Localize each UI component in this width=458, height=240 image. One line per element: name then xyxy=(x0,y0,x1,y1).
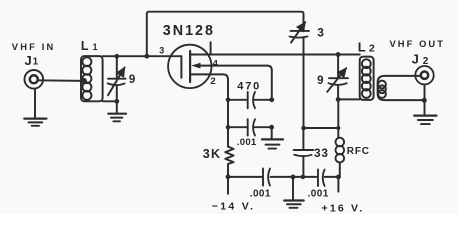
wire pin4 substrate with arrow xyxy=(191,63,272,100)
inductor L3 coupling secondary xyxy=(378,76,425,100)
connector J2 xyxy=(415,66,433,84)
wire pin2 source xyxy=(190,74,228,146)
junction dot C1 bottom xyxy=(114,99,119,104)
svg-text:2: 2 xyxy=(369,43,375,55)
svg-text:L: L xyxy=(81,39,89,53)
svg-text:9: 9 xyxy=(129,74,135,86)
wire tank bottom to RFC node xyxy=(337,99,339,128)
label J1 xyxy=(25,53,39,68)
svg-text:.001: .001 xyxy=(250,188,271,199)
wire link to RFC node xyxy=(304,127,339,129)
svg-text:4: 4 xyxy=(213,58,219,69)
junction dot neutralization tap xyxy=(144,54,149,59)
label L2 xyxy=(358,40,375,55)
resistor 3K xyxy=(225,147,233,177)
capacitor C3 neutralizing 3pF xyxy=(290,22,310,128)
svg-text:VHF OUT: VHF OUT xyxy=(390,39,446,49)
capacitor 470pF xyxy=(228,92,272,108)
junction dot +16V node xyxy=(336,175,341,180)
svg-text:9: 9 xyxy=(317,75,323,87)
junction dot C3 to tank link xyxy=(301,126,306,131)
wire L1 bottom to C1 xyxy=(103,100,117,102)
capacitor .001 bus left xyxy=(263,169,270,186)
wire -14V stem xyxy=(227,177,229,194)
svg-text:J: J xyxy=(25,53,32,68)
transistor Q1 3N128 xyxy=(168,45,211,88)
label J2 xyxy=(412,52,429,67)
wire +16V stem xyxy=(337,177,339,192)
junction dot RFC top node xyxy=(336,126,340,130)
svg-text:3: 3 xyxy=(317,26,324,40)
wire tank bottom xyxy=(338,98,360,100)
ground under C1 xyxy=(108,101,126,121)
ground under J2 xyxy=(414,116,436,125)
svg-text:.001: .001 xyxy=(308,188,329,199)
ground bottom center xyxy=(284,177,304,208)
svg-text:1: 1 xyxy=(33,57,39,68)
junction tap dot on L1 xyxy=(81,78,87,84)
junction dot -14V node xyxy=(226,174,231,179)
svg-text:1: 1 xyxy=(93,42,98,52)
svg-text:L: L xyxy=(358,40,366,55)
junction dot 33 bottom xyxy=(301,175,306,180)
ground under J1 xyxy=(24,89,46,126)
capacitor C9 output variable 9pF xyxy=(327,55,348,100)
capacitor .001 bypass a xyxy=(228,119,272,135)
wire neutralization bus xyxy=(147,12,304,57)
ground right rail xyxy=(262,127,283,148)
svg-text:2: 2 xyxy=(210,76,215,87)
junction dot 470 right xyxy=(269,97,274,102)
capacitor C1 variable 9pF xyxy=(108,56,126,101)
svg-text:3K: 3K xyxy=(203,147,222,161)
svg-text:−14 V.: −14 V. xyxy=(212,201,256,213)
svg-text:470: 470 xyxy=(237,80,261,92)
svg-text:33: 33 xyxy=(314,146,329,160)
inductor L1 xyxy=(81,56,103,101)
inductor RFC xyxy=(336,128,345,177)
svg-text:VHF IN: VHF IN xyxy=(12,42,56,52)
pin 1 lead tick xyxy=(210,42,212,53)
svg-text:3: 3 xyxy=(159,46,164,56)
wire bottom bus xyxy=(228,176,338,178)
wire L1 top to gate xyxy=(103,55,182,57)
svg-text:RFC: RFC xyxy=(347,146,370,157)
capacitor .001 bus right xyxy=(318,170,325,187)
junction dot .001a right xyxy=(269,125,274,130)
label L1 xyxy=(81,39,98,53)
capacitor 33pF xyxy=(294,128,314,177)
connector J1 xyxy=(25,70,44,89)
svg-text:3N128: 3N128 xyxy=(163,23,215,39)
junction dot tank top xyxy=(336,52,341,57)
svg-text:J: J xyxy=(412,52,419,67)
wire J2 to ground xyxy=(424,85,426,115)
junction dot secondary bottom xyxy=(422,98,427,103)
junction dot tank bottom xyxy=(336,97,341,102)
junction dot .001a left xyxy=(226,125,231,130)
junction dot ground node xyxy=(291,175,296,180)
wire drain bus xyxy=(190,54,360,56)
svg-text:+16 V.: +16 V. xyxy=(322,203,365,214)
wire J1 to L1 tap xyxy=(38,79,84,82)
junction dot C1 top xyxy=(115,54,120,59)
svg-text:.001: .001 xyxy=(237,137,257,148)
inductor L2 xyxy=(360,57,374,100)
junction dot 470 left xyxy=(226,98,231,103)
